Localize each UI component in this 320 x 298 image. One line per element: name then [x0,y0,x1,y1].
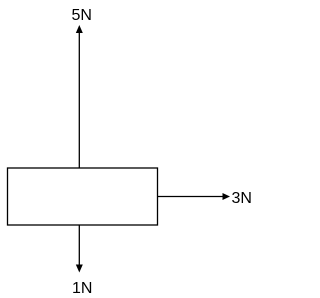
force arrow 3N (rightward) [158,193,231,200]
svg-text:1N: 1N [72,280,92,297]
svg-text:3N: 3N [232,190,252,207]
force arrow 1N (downward) [76,225,83,273]
force arrow 5N (upward) [76,25,83,168]
box (object) [8,168,158,225]
svg-text:5N: 5N [72,7,92,24]
